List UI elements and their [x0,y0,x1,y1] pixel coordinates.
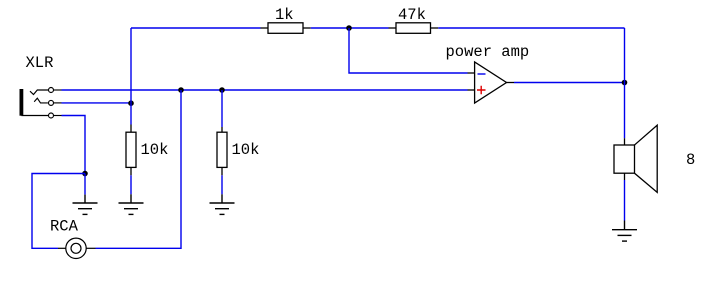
wire pin2 to node A [62,102,132,104]
svg-text:47k: 47k [398,6,426,24]
wire feedback node to op-amp - input [349,28,468,73]
ground G1 [73,195,98,215]
resistor R4 47k [389,23,439,34]
ground G2 [119,194,144,214]
speaker LS1 [614,125,657,192]
wire R4 to output column [438,27,624,29]
wire node A down to R1 [130,103,132,124]
ground G4 [612,221,637,242]
wire pin3 to ground junction [62,116,86,174]
wire RCA to signal riser [96,90,182,248]
wire R1 to ground G2 [130,175,132,194]
junction node A [128,100,134,106]
wire speaker to ground G4 [624,180,626,221]
wire output column [624,28,626,138]
junction output node [622,80,628,86]
svg-text:10k: 10k [232,141,260,159]
svg-text:1k: 1k [275,6,294,24]
op-amp U1 [468,62,515,103]
svg-text:10k: 10k [141,141,169,159]
J1 pin 1 contact [30,88,62,95]
wire op-amp output to output node [514,82,625,84]
wire R2 to ground G3 [221,175,223,194]
U1 inverting input minus sign [478,73,486,75]
wire ground node to ground G1 [84,174,86,195]
J1 pin 3 contact [21,113,61,118]
wire node A up to feedback corner [130,28,132,103]
wire pin1 to op-amp + input [62,89,468,91]
connector J2 RCA [58,238,96,258]
wire R3 to feedback junction [311,27,389,29]
resistor R2 10k [217,127,227,175]
connector J1 XLR body [19,89,23,116]
junction feedback node [346,25,352,31]
junction ground node [82,171,88,177]
J1 pin 2 contact [34,98,61,105]
junction RCA riser on signal line [178,87,184,93]
svg-text:power amp: power amp [446,43,530,61]
resistor R1 10k [126,125,136,176]
svg-text:RCA: RCA [50,217,79,235]
wire ground node to RCA shell [32,174,85,249]
junction R2 tap on signal line [219,87,225,93]
U1 non-inverting input plus sign [477,86,486,95]
svg-text:8: 8 [686,151,695,169]
resistor R3 1k [261,23,311,34]
ground G3 [210,194,235,214]
svg-text:XLR: XLR [26,54,54,72]
wire R2 tap down [221,90,223,127]
wire feedback top left [131,27,261,29]
